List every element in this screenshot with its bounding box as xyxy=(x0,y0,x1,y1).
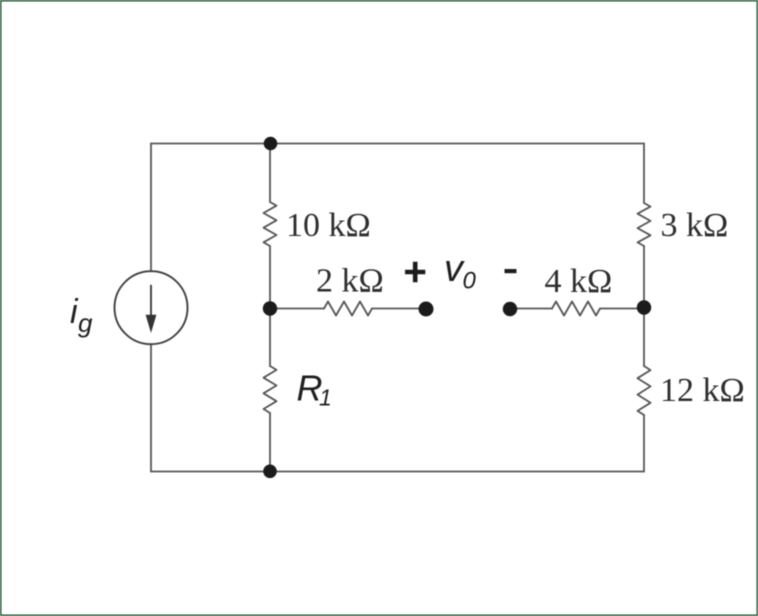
svg-text:2 kΩ: 2 kΩ xyxy=(316,263,384,300)
svg-text:3 kΩ: 3 kΩ xyxy=(661,207,729,244)
wire middle vertical center xyxy=(269,246,271,366)
svg-text:0: 0 xyxy=(463,268,477,295)
resistor 2 kOhm zigzag xyxy=(324,302,372,316)
wire right vertical upper xyxy=(643,144,645,204)
wire node to 2k resistor xyxy=(270,308,324,310)
svg-text:4 kΩ: 4 kΩ xyxy=(545,263,613,300)
current source arrow head xyxy=(146,315,157,333)
wire middle vertical upper xyxy=(269,144,271,203)
node middle right xyxy=(637,300,651,314)
resistor 4 kOhm zigzag xyxy=(552,302,600,316)
resistor 12 kOhm zigzag xyxy=(638,366,651,415)
wire right vertical lower xyxy=(643,415,645,472)
node vo plus terminal xyxy=(419,302,434,317)
svg-text:10 kΩ: 10 kΩ xyxy=(286,207,371,244)
minus sign xyxy=(505,269,517,273)
svg-text:12 kΩ: 12 kΩ xyxy=(660,372,745,409)
svg-text:1: 1 xyxy=(319,385,332,411)
wire minus terminal to 4k resistor xyxy=(510,308,552,310)
node bottom xyxy=(263,465,277,479)
wire middle vertical lower xyxy=(269,413,271,472)
wire top xyxy=(151,143,644,145)
current source circle xyxy=(115,271,188,344)
wire left upper xyxy=(150,144,152,272)
wire left lower xyxy=(150,344,152,471)
resistor R1 zigzag xyxy=(264,366,277,413)
node top xyxy=(264,137,278,151)
wire bottom xyxy=(151,471,644,473)
resistor 10 kOhm zigzag xyxy=(264,202,277,246)
svg-text:g: g xyxy=(78,308,93,338)
wire 4k resistor to right node xyxy=(600,308,644,310)
plus sign xyxy=(405,262,425,282)
node vo minus terminal xyxy=(503,302,517,316)
resistor 3 kOhm zigzag xyxy=(638,203,651,246)
current source arrow shaft xyxy=(150,286,152,317)
wire 2k resistor to plus terminal xyxy=(372,308,426,310)
node middle left xyxy=(263,301,277,315)
wire right vertical center xyxy=(643,246,645,366)
